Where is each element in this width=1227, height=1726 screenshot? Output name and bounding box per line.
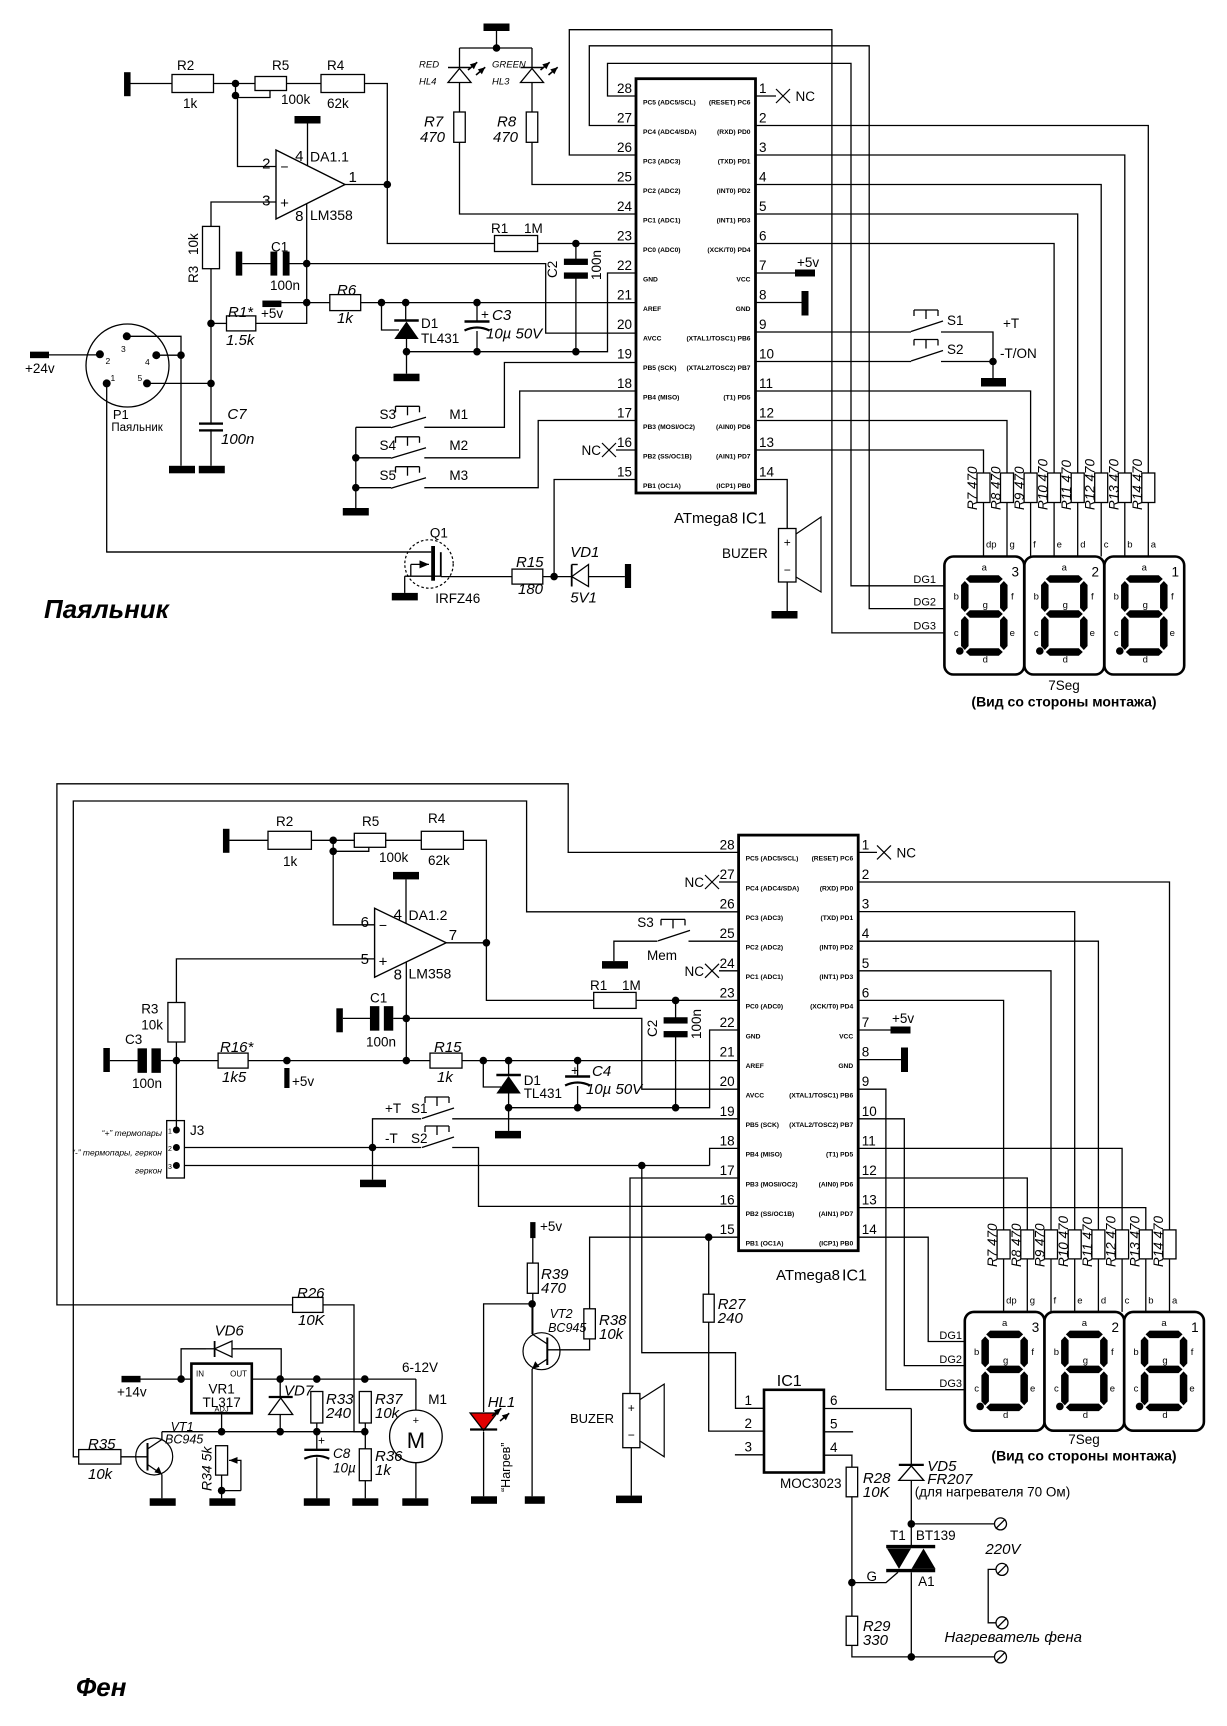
- ground under S1/S2 (bottom): [372, 1148, 374, 1180]
- svg-text:IRFZ46: IRFZ46: [435, 591, 480, 606]
- svg-text:11: 11: [862, 1133, 876, 1148]
- svg-text:b: b: [1054, 1347, 1059, 1358]
- svg-text:1.5k: 1.5k: [226, 332, 256, 349]
- wire HL4 to R7: [459, 83, 461, 113]
- resistor R8 470 (bank bottom): [1021, 1230, 1034, 1259]
- node R5 tap (bottom): [329, 848, 337, 856]
- svg-text:17: 17: [720, 1163, 735, 1178]
- svg-text:220V: 220V: [984, 1541, 1022, 1558]
- svg-text:(XTAL1/TOSC1) PB6: (XTAL1/TOSC1) PB6: [789, 1093, 853, 1100]
- svg-text:+: +: [413, 1415, 419, 1427]
- diode VD7: [269, 1396, 293, 1398]
- wire output down to R1: [387, 185, 494, 244]
- svg-text:+5v: +5v: [540, 1219, 562, 1234]
- wire R6 right: [361, 302, 636, 304]
- svg-text:AVCC: AVCC: [643, 335, 662, 342]
- svg-text:a: a: [1082, 1318, 1088, 1329]
- svg-text:(RXD) PD0: (RXD) PD0: [820, 885, 854, 892]
- svg-text:1M: 1M: [622, 978, 641, 993]
- node R2-R5: [232, 80, 240, 88]
- 7-segment display DIG3 (bottom): [965, 1312, 1045, 1431]
- wire R8 to display (bottom): [1026, 1259, 1028, 1312]
- svg-text:R9 470: R9 470: [1012, 466, 1027, 510]
- svg-text:+5v: +5v: [797, 255, 819, 270]
- ADJ rail: [162, 1431, 365, 1433]
- svg-text:a: a: [982, 563, 988, 574]
- svg-text:8: 8: [759, 288, 767, 303]
- svg-text:24: 24: [720, 956, 736, 971]
- terminal right of VD1: [625, 564, 631, 588]
- wire LED tops: [460, 47, 533, 49]
- svg-text:PC5 (ADC5/SCL): PC5 (ADC5/SCL): [643, 99, 696, 106]
- svg-text:PC0 (ADC0): PC0 (ADC0): [746, 1004, 784, 1011]
- wire S5 right to pin17: [424, 421, 636, 488]
- bus pin26 to R35 rail: [73, 801, 738, 1457]
- svg-text:+: +: [628, 1401, 635, 1415]
- wire S1 right to pin19: [452, 1118, 738, 1120]
- diode VD6: [181, 1349, 206, 1379]
- svg-text:10µ 50V: 10µ 50V: [586, 1081, 644, 1098]
- svg-text:PC4 (ADC4/SDA): PC4 (ADC4/SDA): [643, 129, 697, 136]
- svg-text:b: b: [1034, 592, 1039, 603]
- svg-text:PB4 (MISO): PB4 (MISO): [643, 394, 679, 401]
- svg-text:PB3 (MOSI/OC2): PB3 (MOSI/OC2): [746, 1181, 798, 1188]
- wire R14 to display: [1147, 503, 1149, 557]
- svg-text:(XCK/T0) PD4: (XCK/T0) PD4: [810, 1004, 853, 1011]
- svg-text:15: 15: [617, 465, 632, 480]
- MOC pin6 wire to VD5: [824, 1408, 911, 1410]
- svg-text:2: 2: [744, 1416, 752, 1431]
- wire S3 left: [356, 426, 391, 428]
- 7-segment display DIG1 (bottom): [1124, 1312, 1204, 1431]
- bus wire pin13 to R7: [756, 450, 984, 473]
- svg-text:g: g: [1063, 600, 1068, 611]
- wire P1 pin1 down to Q1 gate: [107, 383, 432, 552]
- ground bar under P1 wires: [169, 466, 195, 474]
- P1 pin 2: [96, 350, 104, 358]
- svg-text:c: c: [1125, 1296, 1130, 1307]
- svg-text:c: c: [974, 1383, 979, 1394]
- svg-text:14: 14: [759, 465, 775, 480]
- svg-text:3: 3: [1011, 565, 1019, 580]
- wire D1 anode to gnd rail (bottom): [508, 1094, 510, 1108]
- svg-text:(AIN1) PD7: (AIN1) PD7: [716, 453, 751, 460]
- svg-text:100k: 100k: [379, 850, 409, 865]
- bus wire pin6 to R10: [756, 244, 1055, 474]
- svg-text:g: g: [1162, 1355, 1167, 1366]
- svg-text:M3: M3: [449, 468, 468, 483]
- node R3/C3/R16/J3: [173, 1057, 181, 1065]
- wire R16* right: [248, 1060, 430, 1062]
- svg-text:PC2 (ADC2): PC2 (ADC2): [643, 188, 681, 195]
- svg-text:6: 6: [759, 229, 767, 244]
- svg-text:(AIN1) PD7: (AIN1) PD7: [819, 1211, 854, 1218]
- svg-text:470: 470: [420, 129, 446, 146]
- wire HL1 to ground: [483, 1432, 485, 1497]
- svg-text:5: 5: [862, 956, 870, 971]
- node P1 pin5 wire: [207, 380, 215, 388]
- resistor R12 470 (bank bottom): [1116, 1230, 1129, 1259]
- svg-text:R6: R6: [337, 282, 357, 299]
- R5 wiper tap: [238, 91, 271, 98]
- svg-text:R1*: R1*: [228, 304, 254, 321]
- node pin3/pin4 join: [177, 351, 185, 359]
- svg-text:1: 1: [862, 837, 870, 852]
- svg-text:2: 2: [1111, 1320, 1119, 1335]
- svg-text:R16*: R16*: [220, 1039, 255, 1056]
- svg-text:+: +: [784, 536, 791, 550]
- terminal left of C1: [236, 252, 243, 276]
- svg-text:IC1: IC1: [742, 511, 767, 528]
- svg-text:GND: GND: [838, 1063, 853, 1070]
- svg-text:(ICP1) PB0: (ICP1) PB0: [716, 483, 750, 490]
- wire R11 to display (bottom): [1097, 1259, 1099, 1312]
- pin16 NC: [616, 449, 636, 451]
- resistor R15 180: [512, 569, 543, 584]
- resistor R3 10k: [203, 226, 220, 268]
- svg-text:10: 10: [759, 347, 774, 362]
- resistor R4 (bottom): [421, 831, 463, 849]
- svg-text:17: 17: [617, 406, 632, 421]
- svg-text:R35: R35: [88, 1436, 116, 1453]
- svg-text:PB1 (OC1A): PB1 (OC1A): [746, 1241, 784, 1248]
- svg-text:R7 470: R7 470: [965, 466, 980, 510]
- svg-text:C1: C1: [271, 240, 288, 255]
- switch S4: [391, 448, 426, 459]
- svg-text:PB2 (SS/OC1B): PB2 (SS/OC1B): [643, 453, 692, 460]
- wire R8 to pin25: [532, 142, 636, 184]
- svg-text:(XTAL2/TOSC2) PB7: (XTAL2/TOSC2) PB7: [686, 365, 750, 372]
- svg-text:C8: C8: [333, 1446, 351, 1461]
- svg-text:R10 470: R10 470: [1036, 458, 1051, 510]
- svg-text:(INT0) PD2: (INT0) PD2: [819, 945, 853, 952]
- D1 ref tap (bottom): [483, 1061, 501, 1087]
- wire output pin1: [345, 184, 387, 186]
- node VD5 / terminal A2: [908, 1520, 916, 1528]
- svg-text:−: −: [280, 159, 288, 175]
- buzzer BUZER bottom: [623, 1394, 640, 1448]
- svg-text:e: e: [1189, 1383, 1194, 1394]
- svg-text:PC3 (ADC3): PC3 (ADC3): [746, 915, 784, 922]
- svg-text:S1: S1: [411, 1101, 428, 1116]
- svg-text:1k5: 1k5: [222, 1069, 247, 1086]
- svg-text:4: 4: [145, 357, 150, 367]
- svg-text:g: g: [1083, 1355, 1088, 1366]
- node D1 ref (bottom): [480, 1057, 488, 1065]
- ground at pin8: [756, 302, 802, 304]
- wire inverting input pin2: [238, 96, 277, 167]
- pin1 NC (bottom): [858, 851, 877, 853]
- transistor VT2 BC945: [523, 1333, 560, 1370]
- svg-text:BC945: BC945: [548, 1321, 586, 1335]
- wire op-amp pin8 down (bottom): [405, 962, 407, 1061]
- svg-text:16: 16: [617, 435, 632, 450]
- VR1 ADJ stem: [221, 1413, 223, 1432]
- wire pin14 to buzzer: [756, 480, 788, 529]
- capacitor C2 100n: [575, 244, 577, 260]
- node +5v / pin8 / R1*: [303, 299, 311, 307]
- resistor R1 1M: [495, 236, 538, 252]
- svg-text:330: 330: [863, 1632, 889, 1649]
- op-amp U DA1.1 LM358: [276, 150, 345, 219]
- svg-text:IC1: IC1: [777, 1373, 802, 1390]
- bus wire pin12 to R8: [756, 421, 1008, 474]
- wire R13 to display (bottom): [1145, 1259, 1147, 1312]
- svg-text:2: 2: [262, 156, 270, 173]
- node S4 left: [352, 454, 360, 462]
- node C4 bottom: [574, 1104, 582, 1112]
- node C1/pin8 (bottom): [403, 1015, 411, 1023]
- svg-text:DA1.2: DA1.2: [409, 907, 448, 923]
- svg-text:R34 5k: R34 5k: [199, 1446, 215, 1491]
- svg-text:Нагреватель фена: Нагреватель фена: [944, 1629, 1082, 1646]
- P1 pin 5: [143, 379, 151, 387]
- svg-text:13: 13: [759, 435, 774, 450]
- svg-text:T1: T1: [890, 1528, 906, 1543]
- node C2 bottom on gnd rail: [572, 348, 580, 356]
- svg-text:1: 1: [111, 373, 116, 383]
- svg-text:3: 3: [759, 140, 767, 155]
- svg-text:R13 470: R13 470: [1106, 458, 1121, 510]
- wire pin17 to buzzer (bottom): [630, 1178, 739, 1394]
- svg-text:VD6: VD6: [215, 1323, 245, 1340]
- svg-text:DG2: DG2: [913, 597, 936, 609]
- buzzer ground: [786, 582, 788, 611]
- resistor R14 470 (bank top): [1142, 473, 1155, 503]
- svg-text:M: M: [407, 1428, 425, 1453]
- svg-text:240: 240: [717, 1310, 744, 1327]
- svg-text:S3: S3: [380, 407, 397, 422]
- bus wire pin5 to R11: [756, 214, 1078, 473]
- svg-text:C1: C1: [370, 991, 387, 1006]
- svg-text:геркон: геркон: [135, 1166, 162, 1176]
- svg-text:27: 27: [617, 111, 632, 126]
- node D1 cathode (bottom): [505, 1057, 513, 1065]
- svg-text:PB2 (SS/OC1B): PB2 (SS/OC1B): [746, 1211, 795, 1218]
- wire output pin7 (bottom): [446, 942, 486, 944]
- svg-text:1: 1: [759, 81, 767, 96]
- svg-text:d: d: [983, 655, 988, 666]
- svg-text:c: c: [1104, 540, 1109, 551]
- svg-text:3: 3: [168, 1164, 172, 1171]
- node output DA1.2: [483, 939, 491, 947]
- D1 ref tap wire: [382, 303, 400, 330]
- svg-text:R10 470: R10 470: [1056, 1215, 1071, 1267]
- svg-text:“-” термопары, геркон: “-” термопары, геркон: [72, 1148, 162, 1158]
- svg-text:(ICP1) PB0: (ICP1) PB0: [819, 1241, 853, 1248]
- svg-text:1: 1: [349, 169, 357, 186]
- MOC pin4 wire to R28: [824, 1455, 852, 1467]
- svg-text:d: d: [1063, 655, 1068, 666]
- svg-text:+: +: [481, 307, 489, 322]
- svg-text:(XTAL1/TOSC1) PB6: (XTAL1/TOSC1) PB6: [686, 335, 750, 342]
- svg-text:7: 7: [449, 927, 457, 944]
- resistor R37 10k: [359, 1392, 371, 1424]
- bus wire pin27 to DG2: [589, 46, 944, 609]
- svg-text:19: 19: [720, 1104, 735, 1119]
- svg-text:10k: 10k: [88, 1466, 114, 1483]
- svg-text:−: −: [379, 917, 387, 933]
- resistor R4: [321, 75, 365, 93]
- svg-text:b: b: [1114, 592, 1119, 603]
- svg-text:R2: R2: [276, 814, 293, 829]
- 7-segment display DIG2 (bottom): [1045, 1312, 1125, 1431]
- node D1 cathode: [402, 299, 410, 307]
- ground bar above LEDs: [484, 24, 510, 32]
- node MOC drive: [638, 1162, 646, 1170]
- svg-text:3: 3: [862, 897, 870, 912]
- wire R7 to display (bottom): [1003, 1259, 1005, 1312]
- svg-text:R11 470: R11 470: [1080, 1216, 1095, 1267]
- wire P1 pin3: [127, 336, 181, 466]
- wire S1 left (bottom): [373, 1119, 422, 1148]
- svg-text:BUZER: BUZER: [722, 546, 768, 561]
- svg-text:−: −: [784, 563, 791, 577]
- svg-text:R8 470: R8 470: [1009, 1223, 1024, 1267]
- svg-text:4: 4: [295, 148, 303, 165]
- wire P1 pin5 to R3 column: [147, 382, 211, 384]
- svg-text:g: g: [983, 600, 988, 611]
- bus pin9 to DG3 (bottom): [858, 1089, 965, 1390]
- svg-text:10k: 10k: [186, 233, 201, 255]
- svg-text:(Вид со стороны монтажа): (Вид со стороны монтажа): [991, 1448, 1176, 1464]
- svg-text:7Seg: 7Seg: [1048, 678, 1080, 693]
- regulator VR1 TL317: [191, 1364, 251, 1414]
- wire R4 to output node: [365, 84, 388, 185]
- svg-text:dp: dp: [986, 540, 997, 551]
- svg-text:28: 28: [720, 837, 735, 852]
- svg-text:f: f: [1031, 1347, 1034, 1358]
- MOC pin3 stub: [735, 1454, 764, 1456]
- svg-text:HL1: HL1: [488, 1394, 516, 1411]
- svg-text:7: 7: [759, 258, 767, 273]
- terminal input top-left: [124, 72, 131, 96]
- wire +5v to node: [281, 302, 306, 304]
- resistor R8 470 (LED): [526, 112, 538, 142]
- bus wire pin3 to R13: [756, 155, 1125, 473]
- svg-text:d: d: [1003, 1410, 1008, 1421]
- svg-text:ATmega8: ATmega8: [776, 1267, 840, 1284]
- svg-text:PC0 (ADC0): PC0 (ADC0): [643, 247, 681, 254]
- resistor R3 10k (bottom): [168, 1003, 185, 1043]
- node LED supply: [493, 44, 501, 52]
- wire R9 to display (bottom): [1050, 1259, 1052, 1312]
- VT2 collector wire: [531, 1304, 533, 1334]
- svg-text:IC1: IC1: [842, 1268, 867, 1285]
- svg-text:6: 6: [830, 1393, 838, 1408]
- svg-text:R26: R26: [297, 1285, 325, 1302]
- wire R11 to display: [1077, 503, 1079, 557]
- svg-text:f: f: [1033, 540, 1036, 551]
- P1 pin 3: [123, 332, 131, 340]
- svg-text:“+” термопары: “+” термопары: [102, 1128, 163, 1138]
- optocoupler IC1 MOC3023: [764, 1390, 824, 1473]
- svg-text:PB3 (MOSI/OC2): PB3 (MOSI/OC2): [643, 424, 695, 431]
- svg-text:8: 8: [394, 967, 402, 984]
- node gate: [848, 1579, 856, 1587]
- svg-text:7Seg: 7Seg: [1068, 1432, 1100, 1447]
- node R5 tap: [232, 92, 240, 100]
- bus wire pin2 to R14 (bottom): [858, 882, 1169, 1230]
- svg-text:1k: 1k: [183, 96, 198, 111]
- svg-text:10: 10: [862, 1104, 877, 1119]
- svg-text:+5v: +5v: [292, 1074, 314, 1089]
- triac T1 BT139: [910, 1524, 912, 1547]
- svg-text:21: 21: [720, 1045, 735, 1060]
- svg-text:PC1 (ADC1): PC1 (ADC1): [643, 217, 681, 224]
- svg-text:62k: 62k: [428, 853, 450, 868]
- svg-text:R12 470: R12 470: [1104, 1215, 1119, 1267]
- diode D1 TL431 (bottom): [496, 1074, 520, 1077]
- svg-text:TL431: TL431: [421, 331, 459, 346]
- svg-text:2: 2: [1091, 565, 1099, 580]
- svg-text:a: a: [1142, 563, 1148, 574]
- zener diode VD1 5V1: [571, 565, 573, 587]
- svg-text:J3: J3: [190, 1123, 204, 1138]
- wire R10 to display (bottom): [1074, 1259, 1076, 1312]
- svg-text:C2: C2: [545, 261, 560, 278]
- svg-text:R15: R15: [434, 1039, 462, 1056]
- svg-text:LM358: LM358: [310, 207, 353, 223]
- svg-text:26: 26: [617, 140, 632, 155]
- svg-text:VCC: VCC: [839, 1033, 853, 1040]
- resistor R2: [172, 75, 214, 93]
- wire S2 right to pin16: [452, 1148, 738, 1207]
- svg-text:PB1 (OC1A): PB1 (OC1A): [643, 483, 681, 490]
- svg-text:NC: NC: [897, 846, 917, 861]
- svg-text:(RESET) PC6: (RESET) PC6: [812, 856, 854, 863]
- node D1 anode / gnd rail: [403, 348, 411, 356]
- svg-text:(T1) PD5: (T1) PD5: [723, 394, 750, 401]
- svg-text:NC: NC: [796, 89, 816, 104]
- 7-segment display DIG3 (top): [944, 557, 1024, 675]
- svg-text:M1: M1: [428, 1392, 447, 1407]
- svg-text:GND: GND: [643, 276, 658, 283]
- capacitor C1 100n: [270, 252, 277, 276]
- svg-text:PB5 (SCK): PB5 (SCK): [643, 365, 676, 372]
- screw terminal A2: [995, 1518, 1007, 1530]
- VT1 collector to ADJ rail: [161, 1432, 163, 1440]
- transistor Q1 IRFZ46: [405, 540, 453, 588]
- svg-text:GREEN: GREEN: [492, 60, 526, 71]
- wire to terminal A2: [911, 1523, 995, 1525]
- Q1 gate wire: [107, 551, 432, 553]
- resistor R10 470 (bank top): [1048, 473, 1061, 503]
- svg-text:62k: 62k: [327, 96, 349, 111]
- svg-text:3: 3: [121, 344, 126, 354]
- capacitor C4 electrolytic: [574, 1057, 582, 1065]
- wire input to R2: [131, 83, 173, 85]
- svg-text:(RXD) PD0: (RXD) PD0: [717, 129, 751, 136]
- svg-text:f: f: [1191, 1347, 1194, 1358]
- svg-text:b: b: [954, 592, 959, 603]
- wire R3 down: [210, 269, 212, 324]
- svg-text:+: +: [318, 1434, 325, 1448]
- svg-text:PC4 (ADC4/SDA): PC4 (ADC4/SDA): [746, 885, 800, 892]
- M1 ground: [415, 1463, 417, 1499]
- node D1 anode (bottom): [505, 1104, 513, 1112]
- node R15-VD1-pin15: [550, 573, 558, 581]
- wire VD1 to terminal: [589, 576, 625, 578]
- svg-text:4: 4: [759, 170, 767, 185]
- resistor R2 (bottom): [268, 831, 311, 849]
- svg-text:R5: R5: [362, 814, 379, 829]
- svg-text:10µ: 10µ: [333, 1461, 356, 1476]
- resistor R33 240: [311, 1392, 323, 1424]
- svg-text:19: 19: [617, 347, 632, 362]
- svg-text:R1: R1: [590, 978, 607, 993]
- svg-text:1: 1: [168, 1129, 172, 1136]
